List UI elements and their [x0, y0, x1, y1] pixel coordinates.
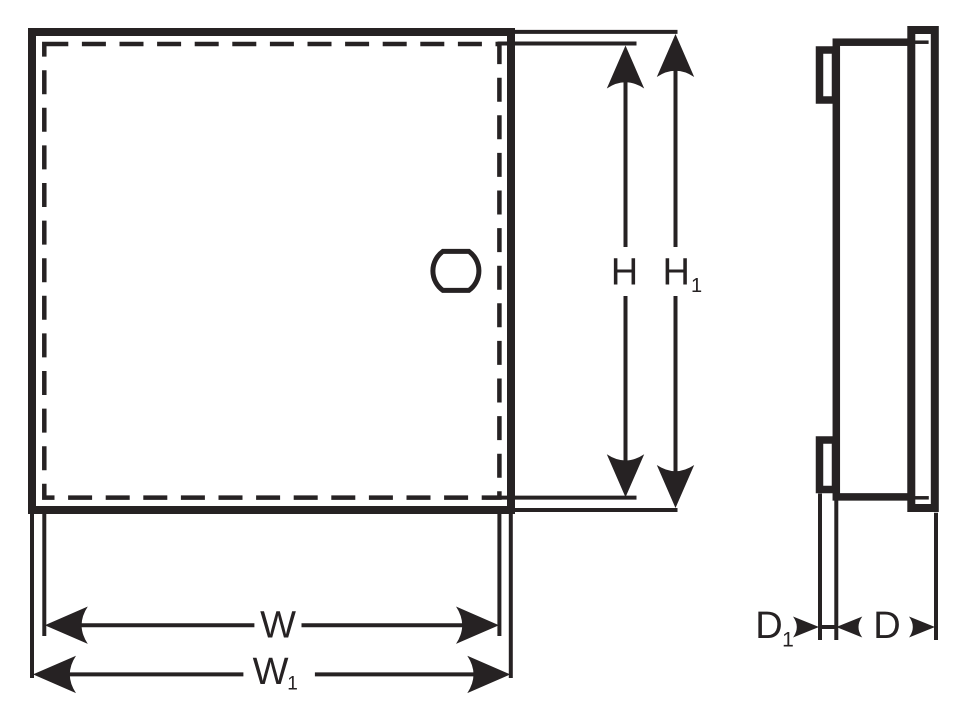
svg-text:1: 1	[782, 628, 794, 651]
H arrow down	[607, 454, 644, 497]
door dashed outline (front view)	[44, 44, 499, 498]
D arrow right (pointing right)	[909, 617, 935, 638]
side view: bottom hinge bracket	[820, 440, 836, 490]
W dimension: right extension line	[497, 514, 501, 636]
H dimension: bottom extension line	[486, 496, 637, 500]
H dimension line upper segment	[624, 60, 628, 247]
D1 dimension: hinge extension line	[818, 494, 822, 641]
svg-text:1: 1	[287, 674, 298, 695]
D arrow left (pointing left)	[836, 617, 862, 638]
enclosure front outer frame	[32, 32, 511, 510]
H dimension: top extension line	[498, 42, 637, 46]
W arrow right	[456, 607, 499, 644]
side view: door panel	[911, 30, 935, 508]
svg-text:1: 1	[691, 275, 702, 297]
W dimension line left segment	[70, 623, 254, 627]
D1 dimension line	[820, 625, 836, 629]
H1 dimension line lower segment	[674, 296, 678, 500]
side view: cabinet body	[836, 42, 911, 497]
door latch (double-D lock)	[433, 251, 479, 290]
H1 arrow down	[657, 465, 694, 508]
W1 dimension: left extension line	[30, 514, 34, 678]
D1 arrow (outside, pointing right)	[793, 617, 819, 638]
svg-text:H: H	[662, 251, 689, 293]
D dimension: door extension line	[934, 513, 938, 640]
svg-text:W: W	[253, 651, 289, 693]
H1 dimension: top extension line	[511, 30, 678, 34]
W1 dimension line left segment	[60, 672, 243, 676]
svg-text:D: D	[755, 605, 782, 647]
side view: door inner step line bottom	[915, 496, 929, 500]
W1 arrow right	[467, 656, 510, 693]
W arrow left	[45, 607, 88, 644]
W1 arrow left	[33, 656, 76, 693]
svg-text:H: H	[611, 251, 638, 293]
W1 dimension: right extension line	[509, 514, 513, 678]
svg-text:D: D	[873, 605, 900, 647]
side view: door inner step line top	[915, 40, 929, 44]
svg-text:W: W	[260, 605, 296, 647]
H1 arrow up	[657, 34, 694, 77]
W dimension: left extension line	[42, 514, 46, 636]
H dimension line lower segment	[624, 296, 628, 490]
W1 dimension line right segment	[315, 672, 480, 676]
H1 dimension: bottom extension line	[511, 508, 678, 512]
H1 dimension line upper segment	[674, 50, 678, 247]
D1/D dimension: wall extension line	[834, 501, 838, 641]
H arrow up	[607, 46, 644, 89]
side view: top hinge bracket	[820, 50, 836, 100]
W dimension line right segment	[302, 623, 471, 627]
